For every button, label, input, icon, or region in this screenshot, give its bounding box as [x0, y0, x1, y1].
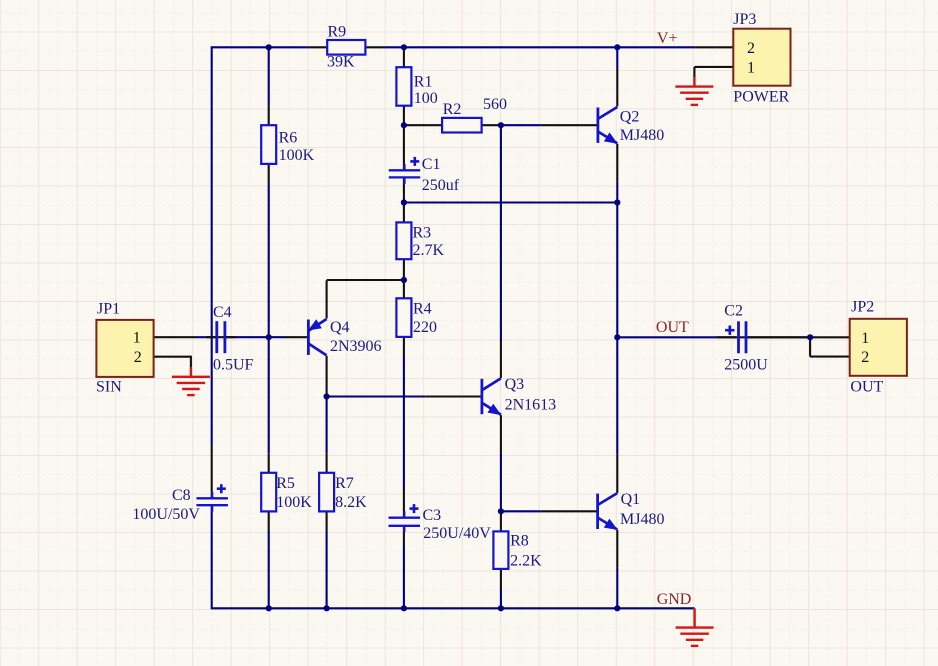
svg-text:JP2: JP2: [851, 298, 874, 315]
wire Q2 emitter to node: [616, 182, 618, 203]
wire Q4 collector pin: [326, 356, 328, 397]
svg-text:2: 2: [134, 349, 142, 366]
wire C3 to ground rail: [403, 545, 405, 608]
svg-text:C3: C3: [423, 507, 442, 524]
resistor R3: [396, 222, 411, 259]
capacitor C8: [196, 484, 228, 512]
label JP3: [733, 11, 756, 28]
wire Q4 collector to Q3 base: [327, 395, 426, 397]
label R4: [413, 301, 432, 318]
wire Q3 base pin: [425, 395, 482, 397]
wire Q2 emitter pin: [616, 144, 618, 182]
svg-text:100K: 100K: [276, 494, 312, 511]
wire R2 right pin: [482, 124, 501, 126]
label 250uf: [422, 177, 460, 194]
pin 1 JP1: [133, 330, 141, 347]
pin 2 JP1: [134, 349, 142, 366]
junction dot 9: [614, 334, 620, 340]
wire node C4 to R5: [268, 337, 270, 453]
wire C1 bottom pin: [403, 177, 405, 202]
label Q2: [620, 108, 640, 125]
pin 2 JP3: [747, 40, 755, 57]
label POWER: [733, 89, 789, 106]
svg-text:100: 100: [414, 90, 438, 107]
pin 2 JP2: [861, 349, 869, 366]
resistor R6: [261, 125, 276, 164]
svg-text:Q4: Q4: [330, 319, 350, 336]
connector JP1: [96, 320, 153, 377]
label C1: [422, 156, 441, 173]
wire R4 bottom pin: [403, 337, 405, 357]
svg-text:POWER: POWER: [733, 89, 789, 106]
label 100U/50V: [132, 506, 200, 523]
wire C8 top pin: [211, 445, 213, 498]
label C8: [172, 487, 191, 504]
wire R5 to ground rail: [268, 531, 270, 608]
svg-text:2.2K: 2.2K: [510, 552, 542, 569]
svg-text:OUT: OUT: [850, 378, 883, 395]
svg-text:2: 2: [747, 40, 755, 57]
junction dot 13: [498, 508, 504, 514]
wire R4 to C3: [403, 357, 405, 489]
wire node 560 to Q2 base: [501, 124, 541, 126]
resistor R4: [396, 298, 411, 337]
svg-text:250U/40V: 250U/40V: [423, 525, 491, 542]
wire Q4 emitter to R3/R4 node: [327, 279, 404, 281]
svg-text:Q1: Q1: [621, 491, 641, 508]
wire Q3 emitter pin: [500, 415, 502, 453]
svg-text:C1: C1: [422, 156, 441, 173]
svg-text:2.7K: 2.7K: [413, 242, 445, 259]
wire V+ rail: [212, 46, 308, 48]
svg-text:R3: R3: [413, 225, 432, 242]
wire C1 top pin: [403, 125, 405, 170]
wire R9 to V+ node: [385, 46, 694, 48]
ground at JP3: [675, 77, 713, 105]
wire GND rail: [212, 607, 695, 609]
wire C4 to Q4 base: [236, 336, 286, 338]
svg-text:Q3: Q3: [505, 376, 525, 393]
label R1: [414, 73, 433, 90]
junction dot 10: [807, 334, 813, 340]
net label V+: [657, 30, 678, 47]
label JP1: [97, 301, 120, 318]
wire R8 top pin: [500, 511, 502, 531]
resistor R5: [261, 473, 276, 512]
label 250U/40V: [423, 525, 491, 542]
wire Q4 base pin: [285, 336, 308, 338]
junction dot 8: [266, 334, 272, 340]
label C4: [213, 304, 232, 321]
wire R1 bottom pin: [403, 106, 405, 126]
label MJ480 Q1: [620, 511, 664, 528]
resistor R1: [396, 67, 411, 106]
label 2.2K: [510, 552, 542, 569]
label R8: [510, 533, 529, 550]
svg-text:R7: R7: [335, 475, 354, 492]
transistor Q4 2N3906: [308, 319, 327, 355]
wire R8 bottom pin: [500, 569, 502, 589]
label 2.7K: [413, 242, 445, 259]
connector JP2: [850, 319, 907, 376]
svg-text:JP3: JP3: [733, 11, 756, 28]
net label OUT: [656, 319, 689, 336]
wire R8 to ground rail: [500, 589, 502, 609]
label R3: [413, 225, 432, 242]
label 220: [413, 319, 437, 336]
svg-text:2N3906: 2N3906: [330, 338, 382, 355]
wire C4 left pin: [206, 336, 216, 338]
junction dot 12: [324, 393, 330, 399]
label R6: [279, 130, 298, 147]
svg-text:R9: R9: [328, 24, 347, 41]
label Q4: [330, 319, 350, 336]
label MJ480 Q2: [620, 127, 664, 144]
wire Q2 base pin: [541, 124, 598, 126]
wire OUT node to Q1 collector: [616, 337, 618, 455]
wire C3 bottom pin: [403, 526, 405, 545]
junction dot 5: [498, 122, 504, 128]
wire C3 top pin: [403, 488, 405, 518]
svg-text:JP1: JP1: [97, 301, 120, 318]
wire Q2 collector pin: [616, 69, 618, 107]
wire C8 bottom to rail: [211, 505, 213, 609]
svg-text:GND: GND: [657, 591, 692, 608]
svg-text:Q2: Q2: [620, 108, 640, 125]
svg-text:MJ480: MJ480: [620, 511, 664, 528]
wire R7 top pin: [326, 453, 328, 473]
wire R3 bottom pin: [403, 259, 405, 280]
net label GND: [657, 591, 692, 608]
label R2: [443, 101, 462, 118]
label 100K R5: [276, 494, 312, 511]
svg-text:560: 560: [483, 96, 507, 113]
pin 1 JP3: [747, 59, 755, 76]
wire to C4: [196, 336, 206, 338]
wire R4 top pin: [403, 280, 405, 298]
junction dot 14: [266, 605, 272, 611]
wire V+ to Q2 collector: [616, 47, 618, 68]
wire R8 node to Q1 base: [501, 510, 541, 512]
wire node 560 down to Q3: [500, 125, 502, 340]
label R7: [335, 475, 354, 492]
wire C2 left pin: [716, 336, 736, 338]
label 0.5UF: [213, 357, 254, 374]
svg-text:R4: R4: [413, 301, 432, 318]
capacitor C2: [716, 321, 810, 353]
wire R6 bottom pin: [268, 164, 270, 184]
label Q3: [505, 376, 525, 393]
transistor Q2 MJ480: [598, 107, 618, 144]
wire left column top: [211, 46, 213, 445]
svg-text:R2: R2: [443, 101, 462, 118]
svg-text:R1: R1: [414, 73, 433, 90]
label OUT JP2: [850, 378, 883, 395]
wire R5 bottom pin: [268, 511, 270, 531]
junction dot 11: [401, 277, 407, 283]
ground at JP1: [172, 367, 210, 395]
wire JP3 pin1 stub: [694, 67, 733, 77]
wire Q1 emitter pin: [616, 530, 618, 568]
resistor R2: [442, 118, 482, 133]
label 2N1613: [505, 397, 557, 414]
wire R9 right pin: [365, 46, 385, 48]
wire R6 column top: [268, 47, 270, 105]
junction dot 16: [401, 605, 407, 611]
wire JP1 pin1 stub: [154, 336, 196, 338]
junction dot 18: [614, 605, 620, 611]
capacitor C4: [206, 321, 236, 353]
wire node to OUT node: [616, 203, 618, 338]
label 2500U: [724, 357, 768, 374]
svg-text:1: 1: [747, 59, 755, 76]
junction dot 15: [324, 605, 330, 611]
svg-text:SIN: SIN: [96, 378, 122, 395]
svg-text:2: 2: [861, 349, 869, 366]
wire R7 to ground rail: [326, 531, 328, 608]
label Q1: [621, 491, 641, 508]
svg-text:1: 1: [861, 330, 869, 347]
wire JP1 pin2 stub: [154, 356, 191, 367]
svg-text:8.2K: 8.2K: [335, 494, 367, 511]
wire JP3 pin2 stub: [694, 46, 733, 48]
label 560: [483, 96, 507, 113]
svg-text:0.5UF: 0.5UF: [213, 357, 254, 374]
resistor R8: [493, 531, 508, 569]
pin 1 JP2: [861, 330, 869, 347]
wire Q1 emitter to ground rail: [616, 568, 618, 609]
wire JP2 pin2 branch: [810, 336, 850, 356]
label JP2: [851, 298, 874, 315]
svg-text:100U/50V: 100U/50V: [132, 506, 200, 523]
svg-text:220: 220: [413, 319, 437, 336]
label 100: [414, 90, 438, 107]
junction dot 2: [401, 44, 407, 50]
wire R1 top pin: [403, 47, 405, 67]
junction dot 1: [266, 44, 272, 50]
ground at GND rail: [676, 608, 714, 646]
label 8.2K: [335, 494, 367, 511]
wire R6 to node C4: [268, 184, 270, 338]
connector JP3: [733, 29, 790, 86]
svg-text:MJ480: MJ480: [620, 127, 664, 144]
junction dot 17: [498, 605, 504, 611]
junction dot 6: [401, 199, 407, 205]
wire R9 left pin: [308, 46, 327, 48]
wire Q1 collector pin: [616, 455, 618, 493]
junction dot 3: [614, 44, 620, 50]
svg-text:R5: R5: [276, 475, 295, 492]
junction dot 4: [401, 122, 407, 128]
wire R7 bottom pin: [326, 511, 328, 531]
label 2N3906: [330, 338, 382, 355]
label R5: [276, 475, 295, 492]
wire R2 left pin: [404, 124, 442, 126]
svg-text:R8: R8: [510, 533, 529, 550]
resistor R9: [327, 40, 365, 55]
svg-text:39K: 39K: [327, 54, 355, 71]
svg-text:1: 1: [133, 330, 141, 347]
wire R6 top pin: [268, 106, 270, 126]
svg-text:C4: C4: [213, 304, 232, 321]
wire R5 top pin: [268, 453, 270, 473]
capacitor C1: [389, 157, 421, 184]
svg-text:250uf: 250uf: [422, 177, 460, 194]
transistor Q1 MJ480: [598, 493, 618, 530]
wire R3 top pin: [403, 203, 405, 223]
svg-text:C2: C2: [724, 303, 743, 320]
wire Q3 collector pin: [500, 340, 502, 378]
label C3: [423, 507, 442, 524]
svg-text:100K: 100K: [279, 147, 315, 164]
wire Q1 base pin: [541, 510, 598, 512]
label 100K R6: [279, 147, 315, 164]
svg-text:R6: R6: [279, 130, 298, 147]
svg-text:V+: V+: [657, 30, 678, 47]
label 39K: [327, 54, 355, 71]
wire Q3 emitter to node: [500, 453, 502, 511]
svg-text:2N1613: 2N1613: [505, 397, 557, 414]
svg-text:OUT: OUT: [656, 319, 689, 336]
label SIN: [96, 378, 122, 395]
svg-text:C8: C8: [172, 487, 191, 504]
resistor R7: [319, 473, 334, 512]
svg-text:2500U: 2500U: [724, 357, 768, 374]
wire C2 right pin: [748, 336, 810, 338]
wire OUT node to C2: [617, 336, 716, 338]
label R9: [328, 24, 347, 41]
wire Q4 emitter pin: [326, 280, 328, 318]
wire Q4 collector to R7: [326, 397, 328, 454]
wire JP2 pin1 stub: [810, 336, 850, 338]
junction dot 7: [614, 199, 620, 205]
wire C4 right pin: [226, 336, 236, 338]
wire C1 bottom rail: [404, 201, 617, 203]
label C2: [724, 303, 743, 320]
transistor Q3 2N1613: [482, 378, 501, 415]
capacitor C3: [389, 504, 421, 532]
